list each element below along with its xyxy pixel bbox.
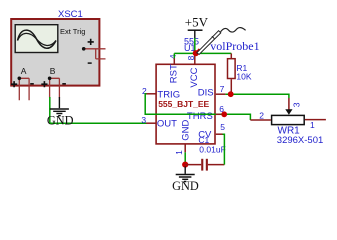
ext trig - label [88, 62, 92, 64]
channel A - label [30, 83, 34, 85]
svg-text:0.01uF: 0.01uF [199, 144, 225, 154]
svg-text:10K: 10K [236, 72, 251, 82]
svg-text:A: A [21, 66, 27, 76]
svg-text:XSC1: XSC1 [58, 9, 83, 20]
svg-text:B: B [50, 66, 56, 76]
svg-text:555_BJT_EE: 555_BJT_EE [158, 99, 209, 109]
channel B - label [62, 83, 66, 85]
junction dot (THRS node) [221, 111, 227, 117]
wire TRIG to THRS to pot (green) [145, 94, 250, 120]
pin 2 TRIG stub [146, 93, 156, 95]
svg-text:+5V: +5V [185, 15, 209, 30]
ground (scope) [50, 97, 69, 116]
wire to pin 4 (green) [173, 53, 175, 58]
channel A + label [11, 81, 17, 87]
channel B + label [41, 81, 47, 87]
channel B terminal [48, 77, 60, 98]
svg-text:GND: GND [181, 120, 192, 141]
ground (under 555) [176, 166, 195, 181]
oscilloscope XSC1 body [11, 19, 99, 86]
svg-text:5: 5 [220, 122, 225, 132]
junction dot (VCC node) [193, 50, 199, 56]
pin 6 THRS stub [216, 113, 221, 115]
channel A terminal [18, 77, 30, 101]
svg-text:7: 7 [220, 84, 225, 94]
svg-text:GND: GND [172, 179, 199, 193]
svg-text:Ext Trig: Ext Trig [60, 27, 85, 36]
pot wiper stub [288, 98, 290, 110]
wire scope B+ to OUT (green) [50, 97, 147, 123]
svg-text:OUT: OUT [157, 119, 177, 130]
svg-text:4: 4 [168, 54, 178, 59]
resistor R1 [228, 53, 236, 94]
capacitor C1 [201, 159, 224, 171]
IC U1 555 timer box [156, 64, 215, 144]
pin 7 stub [216, 93, 226, 95]
svg-text:3: 3 [141, 115, 146, 125]
svg-text:1: 1 [310, 120, 315, 130]
pin 5 CV stub [216, 133, 223, 135]
junction dot (GND node) [182, 162, 188, 168]
pot wiper arrow [285, 109, 292, 114]
probe tip (red) [195, 49, 200, 54]
wire pin1 to ground (green) [184, 152, 186, 162]
svg-text:GND: GND [47, 114, 74, 128]
svg-text:DIS: DIS [198, 87, 214, 98]
pin 3 OUT stub [146, 122, 156, 124]
pin 4 stub [173, 58, 175, 64]
ext trig + label [88, 39, 94, 45]
junction dot (DIS node) [228, 91, 234, 97]
wire junction to C1 [185, 164, 201, 166]
wire +5V down to junction (green) [194, 38, 196, 53]
probe body volProbe1 [197, 28, 246, 55]
svg-text:2: 2 [259, 111, 264, 121]
pin 8 stub [194, 53, 196, 64]
wire VCC rail (green) [174, 52, 231, 54]
pin 1 GND stub [184, 144, 186, 152]
svg-text:1: 1 [174, 150, 184, 155]
power +5V symbol [188, 30, 203, 38]
wire C1 to CV (green) [222, 134, 224, 164]
svg-text:RST: RST [169, 64, 180, 83]
svg-text:volProbe1: volProbe1 [210, 39, 259, 53]
svg-text:3296X-501: 3296X-501 [277, 135, 323, 146]
ext trig terminal [82, 47, 106, 59]
oscilloscope display screen [15, 25, 58, 53]
wire DIS to pot wiper (green) [225, 94, 289, 98]
svg-text:VCC: VCC [189, 67, 200, 87]
potentiometer WR1 [250, 115, 326, 124]
svg-text:3: 3 [291, 102, 301, 107]
